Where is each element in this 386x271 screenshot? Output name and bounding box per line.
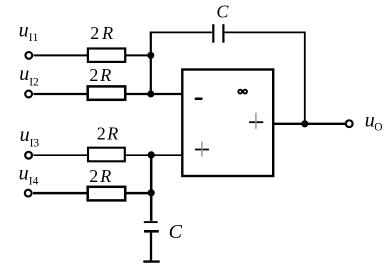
label u_I3 bbox=[20, 124, 40, 149]
op-amp U1 body bbox=[182, 70, 273, 177]
capacitor C1 (feedback) bbox=[213, 24, 223, 43]
wire top feedback left segment bbox=[150, 31, 212, 33]
resistor R3 (2R) bbox=[88, 148, 125, 162]
wire u_I4 to R4 bbox=[33, 192, 89, 195]
wire u_I3 to R3 bbox=[33, 154, 89, 156]
label u_O bbox=[365, 109, 383, 133]
wire R2 to inverting input bbox=[125, 93, 182, 95]
svg-text:u: u bbox=[19, 163, 29, 185]
wire op-amp output to terminal bbox=[273, 123, 345, 125]
svg-text:R: R bbox=[106, 124, 118, 144]
node D junction dot bbox=[148, 189, 155, 196]
terminal u_I2 bbox=[25, 91, 32, 98]
svg-text:R: R bbox=[101, 23, 113, 43]
wire C2 to ground bbox=[150, 231, 152, 260]
label 2R row4 bbox=[89, 166, 111, 186]
capacitor C2 (to ground) bbox=[144, 222, 159, 231]
svg-text:2: 2 bbox=[89, 166, 98, 186]
resistor R2 (2R) bbox=[88, 86, 126, 99]
svg-text:2: 2 bbox=[89, 65, 98, 85]
svg-text:I1: I1 bbox=[29, 32, 39, 44]
svg-text:I2: I2 bbox=[29, 77, 39, 89]
label u_I4 bbox=[19, 163, 39, 188]
wire feedback drop to output node bbox=[304, 32, 306, 124]
wire u_I2 to R2 bbox=[33, 93, 89, 95]
op-amp U1 inverting input minus sign bbox=[196, 97, 202, 100]
svg-text:u: u bbox=[365, 109, 375, 131]
node E output junction dot bbox=[301, 120, 308, 127]
ground bar bbox=[143, 260, 159, 262]
label u_I1 bbox=[19, 20, 39, 45]
terminal u_O bbox=[346, 120, 353, 127]
op-amp U1 infinity gain symbol bbox=[238, 90, 247, 94]
svg-text:u: u bbox=[19, 63, 29, 85]
terminal u_I4 bbox=[25, 190, 32, 197]
label u_I2 bbox=[19, 63, 39, 88]
svg-text:2: 2 bbox=[90, 23, 99, 43]
node B junction dot bbox=[147, 91, 154, 98]
wire upper bus node A to node B bbox=[150, 32, 152, 95]
wire R1 to node A bbox=[125, 54, 151, 56]
svg-text:u: u bbox=[20, 124, 30, 146]
resistor R1 (2R) bbox=[88, 49, 125, 62]
wire R4 to node D bbox=[125, 192, 151, 195]
label 2R row1 bbox=[90, 23, 113, 43]
op-amp U1 non-inverting input plus sign bbox=[195, 142, 209, 157]
svg-text:C: C bbox=[169, 221, 183, 243]
svg-text:R: R bbox=[99, 65, 111, 85]
node C junction dot bbox=[148, 151, 155, 158]
svg-text:2: 2 bbox=[97, 124, 106, 144]
svg-text:R: R bbox=[99, 166, 111, 186]
wire R3 to non-inverting input bbox=[125, 154, 183, 156]
wire top feedback right segment bbox=[225, 31, 305, 33]
label 2R row2 bbox=[89, 65, 111, 85]
svg-text:u: u bbox=[19, 20, 29, 42]
node A junction dot bbox=[147, 52, 154, 59]
svg-text:I4: I4 bbox=[29, 176, 39, 188]
op-amp U1 output polarity plus sign bbox=[249, 113, 263, 129]
svg-text:I3: I3 bbox=[30, 137, 40, 149]
resistor R4 (2R) bbox=[88, 187, 126, 201]
svg-text:C: C bbox=[216, 1, 229, 21]
terminal u_I3 bbox=[25, 152, 32, 159]
terminal u_I1 bbox=[25, 52, 32, 59]
wire u_I1 to R1 bbox=[34, 54, 89, 56]
svg-text:O: O bbox=[374, 122, 382, 134]
label 2R row3 bbox=[97, 124, 119, 144]
wire lower bus node C to C2 bbox=[150, 155, 153, 221]
